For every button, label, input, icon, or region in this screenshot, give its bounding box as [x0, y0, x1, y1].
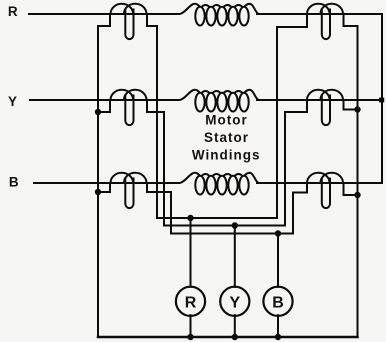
- svg-text:Windings: Windings: [192, 147, 261, 162]
- wire bottom return bus: [98, 336, 358, 339]
- svg-text:Y: Y: [8, 94, 17, 109]
- meter M3 (relay coil B): [263, 287, 292, 316]
- node junction H3 / meter B tap: [275, 230, 281, 236]
- wire CT4 secondary right lead into right common vertical: [344, 14, 358, 337]
- wire CT1 secondary right lead down: [147, 14, 157, 218]
- wire meter B to bottom bus: [277, 315, 279, 337]
- CT2 left current transformer, Y phase: [111, 90, 147, 125]
- wire Y phase line left segment: [30, 99, 179, 101]
- wire link H1: CT1 to CT4 secondary: [157, 14, 307, 218]
- node junction bus / meter B: [275, 334, 281, 340]
- meter M1 (relay coil R): [176, 287, 205, 316]
- node star point (Y line joins star vertical): [379, 98, 384, 103]
- wire CT3 secondary left lead: [98, 183, 110, 192]
- wire link H3: CT3 to CT6 secondary: [171, 183, 307, 234]
- node junction right vertical / CT6 lead: [354, 192, 360, 198]
- wire meter Y to bottom bus: [234, 315, 236, 337]
- inductor L1 motor stator winding, R phase: [180, 4, 259, 26]
- node junction right vertical / CT5 lead: [354, 106, 360, 112]
- CT1 left current transformer, R phase: [111, 4, 147, 39]
- node junction left vertical / CT3 lead: [95, 189, 101, 195]
- CT5 right current transformer, Y phase: [307, 90, 343, 125]
- wire Y phase line right segment: [257, 99, 382, 101]
- wire tap from H2 down to meter Y: [234, 226, 236, 287]
- CT4 right current transformer, R phase: [307, 4, 343, 39]
- svg-text:B: B: [272, 294, 284, 311]
- meter M2 (relay coil Y): [220, 287, 249, 316]
- node junction H1 / meter R tap: [187, 215, 193, 221]
- svg-text:Y: Y: [229, 294, 240, 311]
- wire tap from H3 down to meter B: [277, 234, 279, 287]
- node junction bus / meter R: [187, 334, 193, 340]
- node junction bus / meter Y: [232, 334, 238, 340]
- svg-text:R: R: [185, 294, 197, 311]
- svg-text:Stator: Stator: [204, 130, 249, 145]
- inductor L2 motor stator winding, Y phase: [180, 90, 259, 112]
- wire CT2 secondary right lead down: [147, 100, 164, 226]
- wire CT2 secondary left lead: [98, 100, 110, 112]
- wire R phase line right segment + star-point vertical: [257, 14, 382, 183]
- wire CT3 secondary right lead down: [147, 183, 171, 234]
- svg-text:R: R: [8, 4, 18, 19]
- wire CT5 secondary right lead: [344, 100, 358, 110]
- node junction H2 / meter Y tap: [232, 222, 238, 228]
- wire link H2: CT2 to CT5 secondary: [164, 100, 307, 226]
- inductor L3 motor stator winding, B phase: [180, 173, 259, 195]
- CT6 right current transformer, B phase: [307, 173, 343, 208]
- wire tap from H1 down to meter R: [190, 218, 192, 287]
- wire CT1 secondary left lead into left common vertical: [98, 14, 110, 337]
- wire B phase line left segment: [34, 182, 179, 184]
- CT3 left current transformer, B phase: [111, 173, 147, 208]
- svg-text:B: B: [9, 175, 19, 190]
- wire CT6 secondary right lead: [344, 183, 358, 195]
- node junction left vertical / CT2 lead: [95, 109, 101, 115]
- svg-text:Motor: Motor: [205, 113, 248, 128]
- wire B phase line right segment: [257, 182, 382, 184]
- wire meter R to bottom bus: [190, 315, 192, 337]
- wire R phase line left segment: [29, 13, 179, 15]
